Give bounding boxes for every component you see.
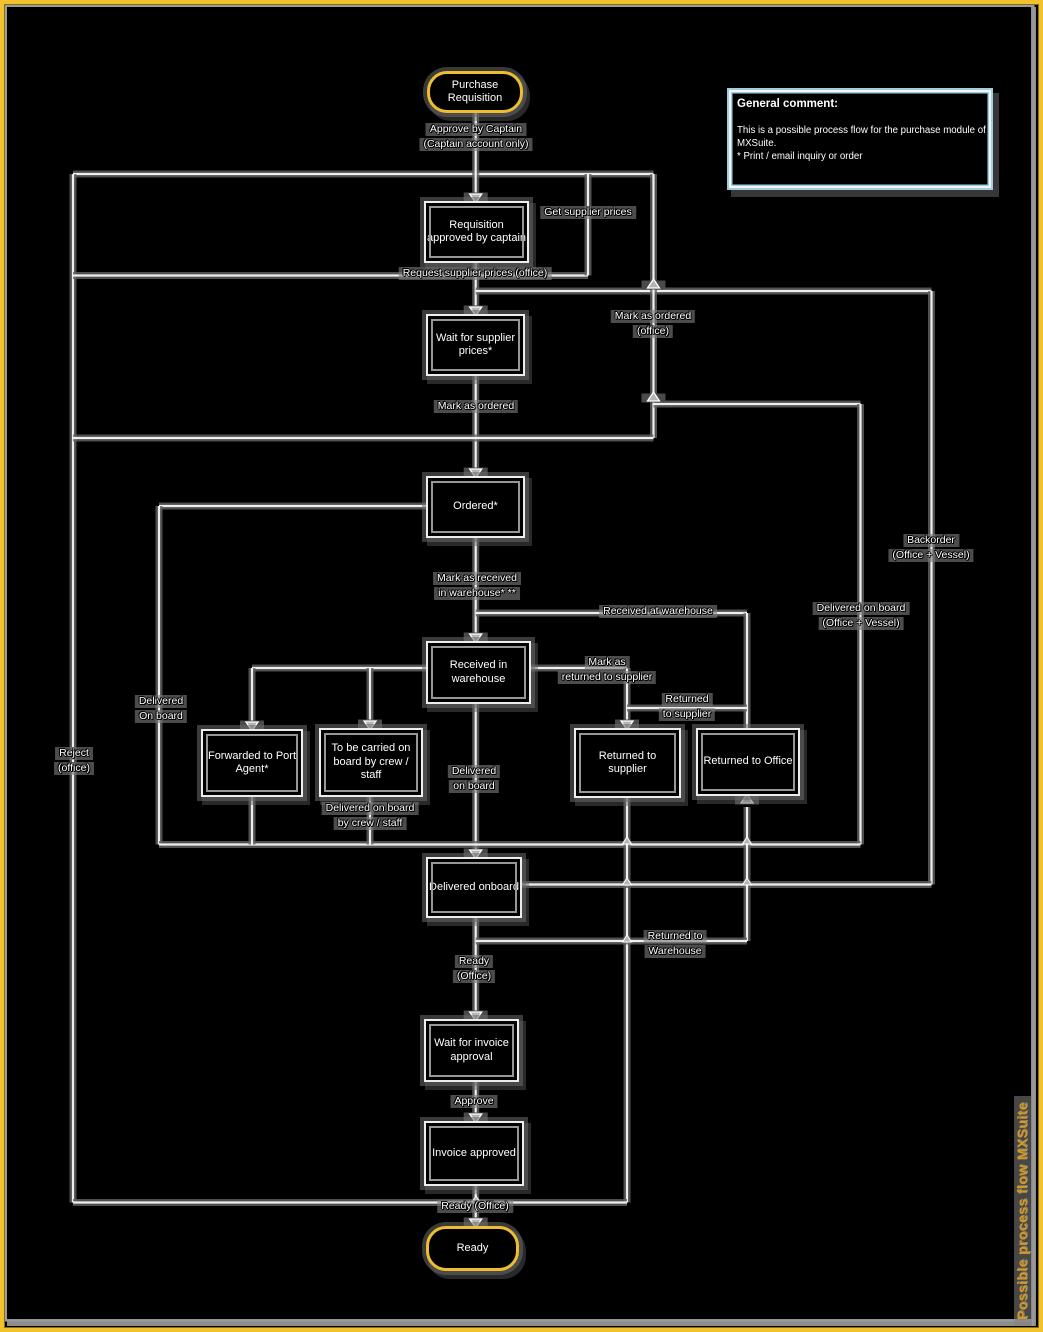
- label Returned to Warehouse: [644, 929, 707, 959]
- end terminal Ready: [426, 1226, 519, 1271]
- box Invoice approved: [424, 1121, 524, 1186]
- wire V b6 bottom to H5: [249, 795, 256, 845]
- arrowhead into To be carried on board: [358, 720, 382, 731]
- wire H b5 right branch mark-as-returned: [529, 665, 627, 672]
- wire H4 ordered left branch: [159, 503, 428, 510]
- label Delivered on board (Office + Vessel): [813, 601, 910, 631]
- wire V b7 bottom to H5: [367, 795, 374, 845]
- wire V mark as ordered office: [650, 174, 657, 438]
- wire V centre start to b2: [472, 111, 479, 198]
- wire V centre b5 to H5: [472, 702, 479, 854]
- wire V to to-be-carried: [367, 668, 374, 725]
- wire H3 mark as ordered: [73, 435, 654, 442]
- arrowhead into Ordered: [464, 468, 488, 479]
- box Ordered: [426, 476, 525, 538]
- wire V backorder office+vessel: [928, 291, 935, 885]
- start terminal Purchase Requisition: [427, 71, 523, 113]
- label Backorder (Office + Vessel): [888, 533, 973, 563]
- wire H2b backorder return: [476, 288, 932, 295]
- arrowhead into Wait for invoice approval: [464, 1011, 488, 1022]
- arrowhead into Returned to supplier: [615, 720, 639, 731]
- junction chevron returned-to-office over H7: [743, 878, 752, 885]
- label Request supplier prices (office): [399, 266, 552, 281]
- label Mark as ordered: [434, 399, 518, 414]
- wire H returned-to-supplier join: [627, 705, 747, 712]
- wire V centre b12 to end: [472, 1184, 479, 1222]
- wire V returned-to-office up: [744, 807, 751, 941]
- arrowhead into Invoice approved: [464, 1113, 488, 1124]
- box Forwarded to Port Agent: [201, 729, 303, 797]
- arrowhead into Requisition approved: [464, 193, 488, 204]
- wire H2a request supplier prices: [73, 272, 588, 279]
- arrowhead into Delivered onboard: [464, 849, 488, 860]
- wire V returned-to-supplier down: [624, 796, 631, 1203]
- label Delivered on board: [448, 764, 500, 794]
- junction chevron returned-to-supplier over H7: [623, 878, 632, 885]
- label Mark as received in warehouse: [433, 571, 521, 601]
- caption Possible process flow MXSuite: [1022, 1210, 1024, 1212]
- junction chevron returned-to-office over H5: [743, 837, 752, 844]
- label Get supplier prices: [540, 205, 636, 220]
- arrowhead into Ready: [464, 1218, 488, 1229]
- label Ready (Office): [453, 954, 495, 984]
- label Returned to supplier: [659, 692, 715, 722]
- label Mark as returned to supplier: [558, 655, 656, 685]
- label Approve: [450, 1094, 497, 1109]
- wire H5 delivered onboard collector: [159, 841, 861, 848]
- box Wait for invoice approval: [424, 1019, 519, 1082]
- label Delivered on board by crew/staff: [322, 801, 419, 831]
- wire H delivered-on-board link: [654, 401, 861, 408]
- wire H b5 left branch: [252, 665, 428, 672]
- wire V centre b11 to b12: [472, 1080, 479, 1117]
- wire H7 backorder from delivered onboard: [520, 881, 932, 888]
- arrowhead into Forwarded to Port Agent: [240, 721, 264, 732]
- wire V to returned-to-supplier: [624, 668, 631, 725]
- wire H9 bottom ready/reject line: [73, 1199, 627, 1206]
- arrowhead into Received in warehouse: [464, 633, 488, 644]
- label Mark as ordered (office): [611, 309, 695, 339]
- comment box: General comment: [727, 88, 993, 190]
- arrowhead up on mark-as-ordered line at backorder return line: [642, 279, 666, 290]
- wire H1 top return line: [73, 171, 654, 178]
- label Delivered On board: [135, 694, 187, 724]
- box Requisition approved by captain: [424, 201, 529, 263]
- junction chevron returned-to-supplier over H8: [623, 935, 632, 942]
- box To be carried on board by crew/staff: [319, 728, 423, 797]
- wire V received-at-warehouse down: [744, 613, 751, 730]
- junction chevron returned-to-supplier over H5: [623, 837, 632, 844]
- wire V left reject loop: [70, 174, 77, 1203]
- arrowhead up into Returned to Office: [735, 794, 759, 805]
- wire V to forwarded-to-port-agent: [249, 668, 256, 726]
- label Ready (Office) bottom: [437, 1199, 513, 1214]
- wire H8 returned to warehouse: [476, 938, 747, 945]
- box Returned to Office: [696, 728, 800, 796]
- wire V get supplier prices: [585, 174, 592, 276]
- box Wait for supplier prices: [426, 314, 525, 376]
- wire V centre b4 to b5: [472, 536, 479, 637]
- wire V centre b3 to b4: [472, 374, 479, 472]
- arrowhead into Wait for supplier prices: [464, 306, 488, 317]
- wire V centre b10 to b11: [472, 916, 479, 1015]
- box Delivered onboard: [426, 857, 522, 918]
- label Received at warehouse: [599, 604, 717, 619]
- arrowhead up on mark-as-ordered line at delivered-on-board link: [642, 392, 666, 403]
- wire V delivered on board office+vessel: [857, 404, 864, 845]
- junction chevron centre line over H9: [472, 1196, 481, 1203]
- wire V centre b2 to b3: [472, 261, 479, 310]
- wire V2 delivered onboard left loop: [156, 506, 163, 845]
- wire H received-at-warehouse: [476, 610, 747, 617]
- box Received in warehouse: [426, 641, 531, 704]
- box Returned to supplier: [574, 728, 681, 798]
- label Approve by Captain: [419, 122, 532, 152]
- label Reject (office): [54, 746, 94, 776]
